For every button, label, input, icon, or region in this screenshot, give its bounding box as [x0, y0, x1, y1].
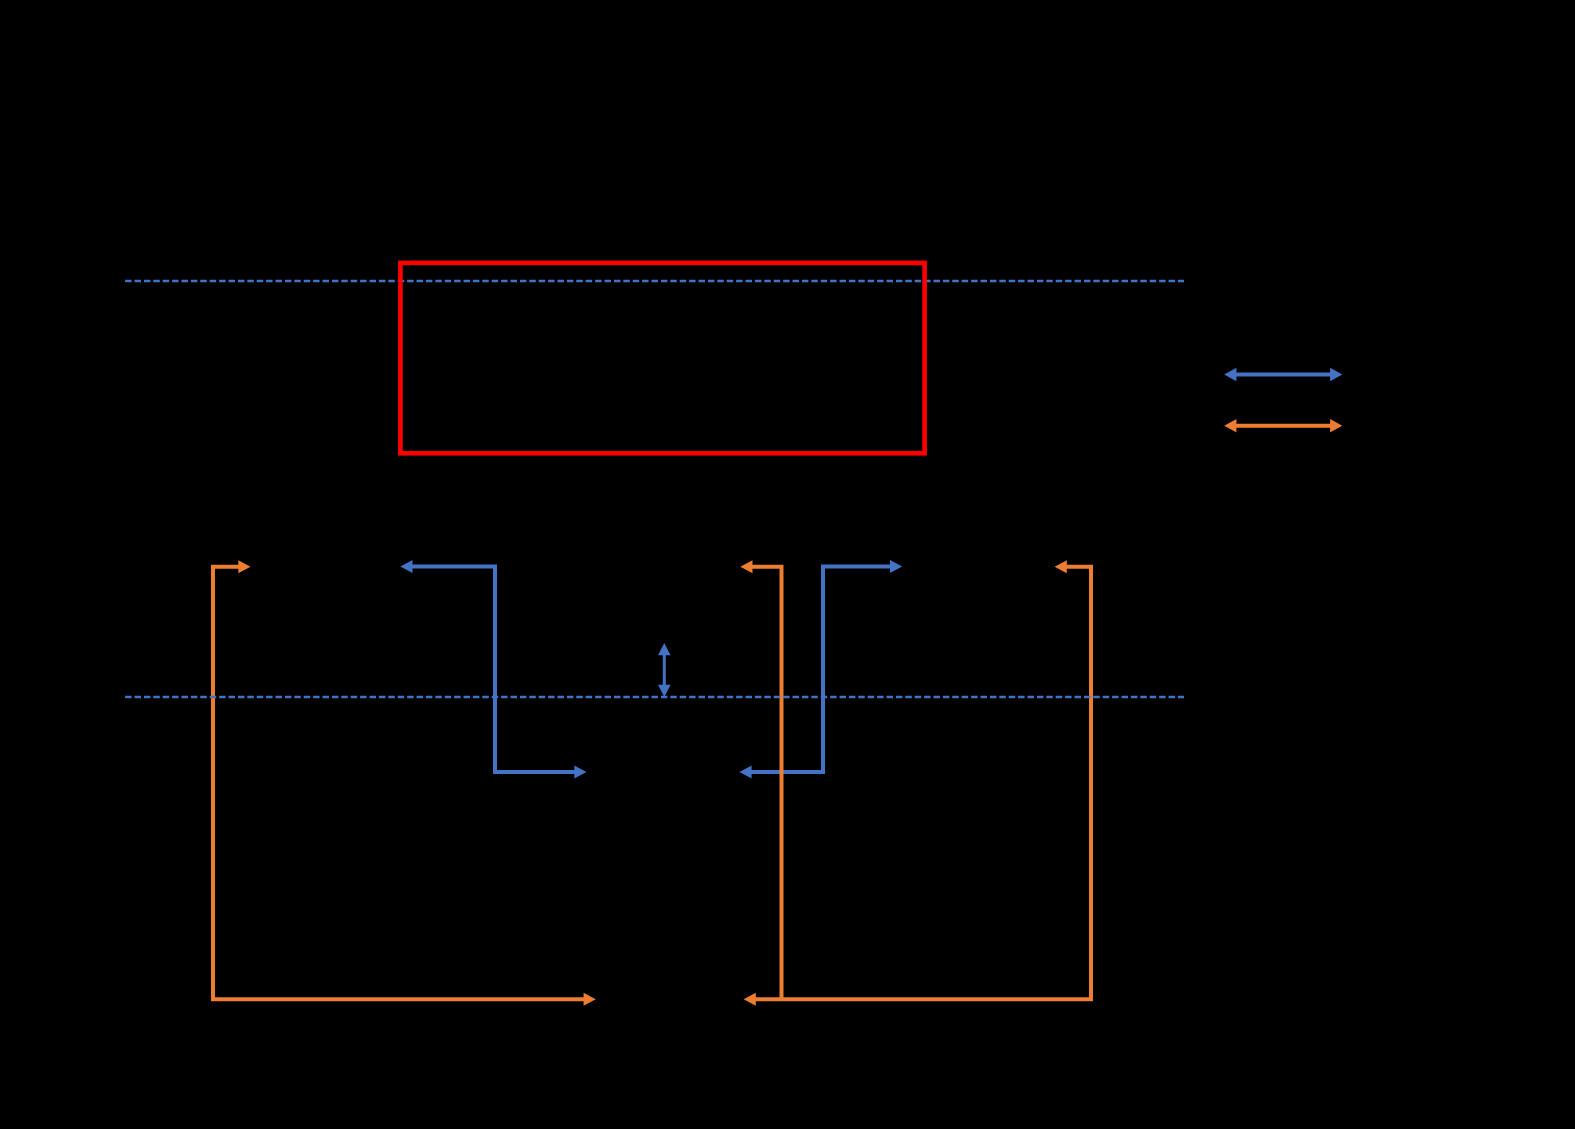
orange C-arrow far right: top-left arrowhead: [1055, 560, 1067, 573]
legend blue double-headed arrow: [1234, 373, 1332, 377]
orange C-arrow far left: bottom-right arrowhead: [584, 993, 596, 1006]
legend orange double-headed arrow: [1234, 424, 1332, 428]
blue small vertical double arrow: [663, 653, 666, 687]
orange middle vertical arrow: [750, 567, 782, 1000]
blue S-arrow right (down-step path): [749, 567, 892, 773]
upper dashed reference line: [125, 280, 1184, 283]
lower dashed reference line: [125, 696, 1184, 699]
blue Z-arrow left: right arrowhead: [574, 766, 586, 779]
orange middle vertical arrow: left arrowhead: [740, 560, 752, 573]
blue S-arrow right: right arrowhead: [890, 560, 902, 573]
orange C-arrow far right: [753, 567, 1091, 1000]
blue Z-arrow left (down-step path): [410, 567, 578, 773]
orange C-arrow far left: [213, 567, 586, 1000]
orange C-arrow far right: bottom-left arrowhead: [744, 993, 756, 1006]
blue S-arrow right: left arrowhead: [739, 766, 751, 779]
blue Z-arrow left: left arrowhead: [400, 560, 412, 573]
orange C-arrow far left: top-right arrowhead: [238, 560, 250, 573]
red rectangle: [400, 263, 924, 453]
